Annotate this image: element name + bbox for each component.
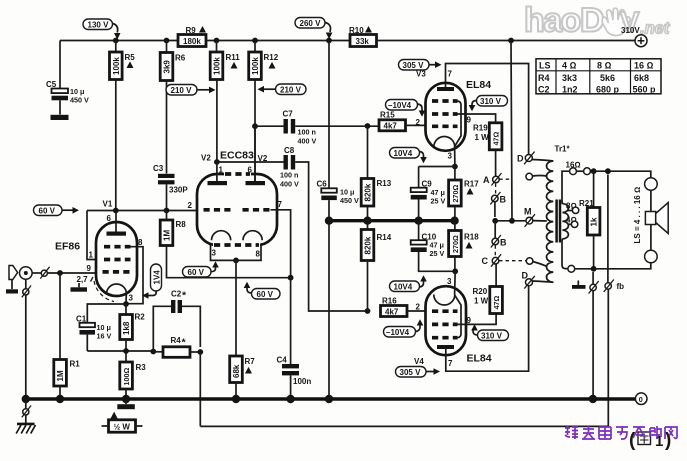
label 305 V V3: [399, 60, 442, 71]
terminal 4ohm tap: [566, 216, 578, 228]
contact B: [490, 192, 506, 217]
node bus R13/R14: [363, 217, 371, 225]
node R21 bottom / ground drop: [591, 266, 597, 272]
svg-text:R19: R19: [473, 124, 488, 133]
wire V3 anode to D chain: [446, 64, 529, 155]
wire secondary top to 16ohm line: [562, 171, 570, 204]
wire fb to feedback line: [607, 289, 609, 426]
svg-text:270Ω: 270Ω: [451, 185, 460, 203]
wire cathode down to R7: [235, 260, 237, 356]
capacitor C2* branch: [153, 290, 200, 352]
svg-text:100k: 100k: [213, 57, 222, 75]
capacitor C8 100n 400V: [217, 146, 368, 311]
svg-text:400 V: 400 V: [280, 180, 299, 189]
wire feedback drop: [199, 352, 201, 426]
svg-text:60 V: 60 V: [188, 268, 205, 277]
wire jack to switch: [32, 272, 41, 274]
wire pin3 V4 stem: [454, 271, 457, 294]
cathode V2b: [243, 231, 262, 241]
node ground secondary: [589, 395, 597, 403]
svg-text:LS: LS: [539, 61, 551, 71]
svg-text:5k6: 5k6: [600, 73, 615, 83]
wire V1 anode line: [87, 210, 197, 212]
svg-text:2: 2: [416, 303, 421, 312]
label 260 V: [295, 18, 332, 40]
svg-text:R5: R5: [125, 53, 136, 62]
svg-text:8: 8: [138, 238, 143, 247]
watermark haoDIY.net: [524, 2, 671, 40]
svg-text:310V: 310V: [621, 26, 640, 35]
svg-text:D: D: [517, 154, 524, 164]
dashed link A-B: [495, 184, 497, 195]
svg-text:210 V: 210 V: [280, 85, 302, 94]
resistor R14 820k: [361, 222, 392, 311]
terminal 16ohm link right: [584, 168, 591, 175]
wire grid-1 drop to EF86 pin 1: [87, 211, 96, 260]
node pin1 / R11 / C8: [214, 159, 220, 165]
wire common line to speaker return: [575, 263, 651, 269]
svg-text:100k: 100k: [112, 57, 121, 75]
svg-text:16 V: 16 V: [97, 332, 112, 341]
anode V1: [115, 211, 117, 232]
svg-text:130 V: 130 V: [88, 20, 110, 29]
svg-text:–10V4: –10V4: [388, 101, 412, 110]
wire 310V rail drop: [511, 41, 512, 221]
resistor R4*: [153, 336, 200, 357]
svg-text:310 V: 310 V: [481, 331, 503, 340]
svg-text:450 V: 450 V: [70, 96, 89, 105]
pin 8 wire to cathode node: [126, 238, 143, 304]
svg-text:210 V: 210 V: [171, 86, 193, 95]
node R21 top: [591, 168, 597, 174]
wire cathode pins 3+8 join: [211, 245, 262, 260]
grid row V2a: [204, 208, 232, 212]
wire pin9 V4 to R20: [458, 314, 497, 325]
svg-text:7: 7: [278, 200, 283, 209]
wire V4 anode to D chain: [446, 286, 529, 371]
node 310V drop: [509, 218, 515, 224]
switch contact jack shield: [22, 279, 31, 399]
svg-text:C2: C2: [171, 290, 182, 299]
anode V2b: [254, 126, 256, 181]
node C3 / R8: [164, 208, 170, 214]
svg-text:3: 3: [447, 277, 452, 286]
svg-text:330P: 330P: [169, 186, 188, 195]
svg-text:2: 2: [416, 118, 421, 127]
svg-text:1 W: 1 W: [474, 297, 489, 306]
svg-text:EL84: EL84: [466, 79, 491, 91]
label -10V4 V3: [386, 100, 426, 117]
svg-text:0: 0: [639, 395, 643, 404]
tube V2 ECC83 envelope: [197, 174, 277, 245]
anode bar V3: [437, 87, 454, 91]
wire fb tap down: [607, 175, 609, 283]
g3 to cathode strap V4: [455, 295, 461, 338]
node ground C4: [286, 395, 294, 403]
node rail 310V feed: [508, 38, 514, 44]
node R2/R3: [123, 348, 129, 354]
envelope dashed bottom segment: [213, 243, 260, 246]
resistor R13 820k: [361, 126, 392, 219]
svg-text:R3: R3: [136, 363, 147, 372]
node rail 260V / C6: [326, 38, 332, 44]
svg-text:1 W: 1 W: [475, 133, 490, 142]
capacitor C7 100n 400V: [255, 110, 379, 146]
capacitor C1 10u 16V: [76, 315, 111, 352]
resistor R6 3k9: [160, 41, 186, 174]
svg-text:R20: R20: [473, 287, 488, 296]
svg-text:60 V: 60 V: [257, 290, 274, 299]
svg-text:4 Ω: 4 Ω: [562, 61, 577, 71]
wire V3 cathode to C9: [419, 166, 455, 168]
svg-text:haoD: haoD: [524, 2, 604, 40]
svg-text:R13: R13: [377, 179, 392, 188]
svg-text:R18: R18: [464, 233, 479, 242]
svg-text:.net: .net: [640, 20, 671, 38]
label 1V4: [142, 264, 162, 299]
node rail R6: [164, 38, 170, 44]
svg-text:4k7: 4k7: [384, 122, 398, 131]
svg-text:Tr1*: Tr1*: [555, 145, 571, 154]
node R4/C2 right: [197, 349, 203, 355]
svg-text:3k9: 3k9: [163, 60, 172, 74]
wire screen node to M: [495, 220, 526, 222]
svg-text:33k: 33k: [356, 37, 370, 46]
svg-text:47Ω: 47Ω: [492, 296, 501, 310]
capacitor C3 330p: [153, 164, 188, 211]
contact M: [524, 207, 547, 227]
terminal speaker bottom: [645, 250, 658, 263]
svg-text:EL84: EL84: [467, 353, 492, 365]
svg-text:V1: V1: [103, 200, 113, 209]
ground bar under C5: [51, 115, 69, 120]
node rail R11: [214, 38, 220, 44]
resistor R8 1M: [160, 211, 290, 278]
switch contact input: [40, 267, 49, 279]
transformer core: [557, 200, 560, 243]
svg-text:R1: R1: [70, 360, 81, 369]
switch contact chassis: [22, 399, 31, 423]
resistor R17 270ohm: [449, 167, 480, 220]
svg-text:C4: C4: [277, 356, 288, 365]
svg-text:100Ω: 100Ω: [122, 368, 131, 386]
terminal 16ohm link left: [570, 168, 577, 175]
svg-text:25 V: 25 V: [431, 197, 446, 206]
svg-text:820k: 820k: [364, 183, 373, 201]
svg-text:C8: C8: [284, 146, 295, 155]
contact A: [483, 173, 512, 186]
terminal +310V: [621, 26, 647, 47]
node R4/C2 left: [150, 349, 156, 355]
terminal speaker top: [645, 178, 658, 191]
watermark purple site name: [565, 426, 677, 439]
ground bar chassis near link: [572, 281, 586, 289]
label 10V4 V3: [390, 148, 427, 164]
contact B2: [491, 235, 507, 248]
svg-text:3: 3: [129, 294, 134, 303]
svg-text:R10: R10: [349, 26, 364, 35]
terminal secondary common: [568, 265, 575, 272]
svg-text:100 n: 100 n: [280, 171, 298, 180]
node rail R5: [113, 38, 119, 44]
svg-text:R2: R2: [135, 313, 146, 322]
resistor R16 4k7: [381, 297, 426, 317]
grid rows V4: [432, 309, 458, 313]
cathode V2a: [212, 231, 231, 241]
svg-text:60 V: 60 V: [39, 206, 56, 215]
label 210 V left: [166, 85, 216, 96]
svg-text:310 V: 310 V: [480, 97, 502, 106]
resistor R15 4k7: [379, 111, 426, 131]
node V1 anode / R5: [113, 208, 119, 214]
resistor R1 1M: [54, 273, 80, 399]
capacitor C9 47u 25V: [411, 167, 446, 220]
svg-text:–10V4: –10V4: [386, 328, 410, 337]
terminal A tap: [526, 173, 547, 180]
wire speaker bottom lead: [650, 225, 652, 251]
node V4 cathode junction: [452, 268, 458, 274]
terminal 0V: [635, 393, 647, 405]
tube V3 EL84 envelope: [426, 83, 466, 151]
label 130 V: [83, 19, 121, 40]
svg-text:R14: R14: [377, 233, 392, 242]
svg-text:305 V: 305 V: [400, 368, 422, 377]
contact fb: [604, 280, 624, 293]
input jack plug: [6, 266, 18, 294]
svg-text:C: C: [482, 256, 489, 266]
svg-text:1: 1: [219, 166, 224, 175]
svg-text:V2: V2: [201, 154, 211, 163]
svg-text:10V4: 10V4: [394, 149, 413, 158]
watermark caption black: [629, 430, 671, 451]
resistor R19 47ohm 1W: [473, 123, 502, 176]
svg-text:820k: 820k: [364, 236, 373, 254]
svg-text:LS = 4 . . . 16 Ω: LS = 4 . . . 16 Ω: [633, 187, 642, 244]
svg-text:6: 6: [248, 166, 253, 175]
resistor R5 100k: [110, 41, 136, 211]
svg-text:450 V: 450 V: [340, 196, 359, 205]
svg-text:A: A: [483, 175, 490, 185]
label 60 V cathode V2: [183, 261, 219, 277]
svg-text:47Ω: 47Ω: [492, 132, 501, 146]
wire 16ohm line to speaker: [590, 171, 650, 177]
svg-text:R4: R4: [538, 73, 550, 83]
wire to EF86 grid: [47, 272, 96, 274]
ground bar below R3: [117, 399, 135, 409]
svg-text:1: 1: [89, 251, 94, 260]
anode V2a: [216, 162, 218, 181]
svg-text:C6: C6: [317, 180, 328, 189]
svg-text:100k: 100k: [251, 57, 260, 75]
tube V4 EL84 envelope: [426, 286, 467, 355]
table LS/R4/C2 values: [536, 59, 661, 95]
grid rows V1: [104, 245, 131, 249]
svg-text:½ W: ½ W: [114, 423, 131, 432]
contact ground link: [589, 281, 599, 294]
grid rows V3: [432, 99, 458, 103]
capacitor C6 10u 450V: [317, 180, 359, 220]
svg-text:2: 2: [188, 201, 193, 210]
capacitor C5 10u 450V: [46, 80, 89, 115]
label 310 V V3: [469, 96, 508, 112]
svg-text:7: 7: [448, 359, 453, 368]
resistor R7 68k: [230, 356, 256, 399]
svg-text:1M: 1M: [163, 230, 172, 241]
capacitor C4 100n: [277, 356, 312, 400]
node ground R3: [122, 395, 130, 403]
g3 to cathode strap V3: [455, 101, 461, 147]
contact C: [482, 254, 527, 267]
wire pin3 V3 to junction: [454, 146, 456, 167]
svg-text:3: 3: [448, 152, 453, 161]
label 60 V grid line: [244, 282, 280, 299]
bus cathode network: [329, 219, 455, 222]
node input junction: [57, 270, 63, 276]
resistor R12 100k: [249, 41, 279, 182]
cathode V3: [434, 137, 455, 148]
node fb tap: [605, 168, 611, 174]
svg-text:2,7: 2,7: [77, 275, 89, 284]
node ground jack: [22, 395, 30, 403]
svg-text:68k: 68k: [232, 364, 241, 378]
resistor R10 33k: [349, 26, 377, 47]
node ground C6: [325, 395, 333, 403]
wire C1/R2 bottom link: [87, 350, 153, 352]
node bus C9/C10: [414, 217, 422, 225]
svg-text:1M: 1M: [56, 370, 65, 381]
resistor R9 180k: [178, 26, 206, 47]
label 305 V V4: [396, 367, 441, 378]
resistor R2 1k8: [120, 304, 145, 351]
svg-text:C2: C2: [538, 84, 550, 94]
wire junction to C1: [87, 304, 126, 323]
svg-text:1n2: 1n2: [562, 84, 578, 94]
svg-text:R11: R11: [226, 53, 241, 62]
envelope dashed top segment: [224, 172, 251, 175]
svg-text:16 Ω: 16 Ω: [634, 61, 654, 71]
node cathode junction V1: [123, 301, 129, 307]
svg-text:ECC83: ECC83: [220, 150, 254, 162]
svg-text:100n: 100n: [293, 377, 311, 386]
ground bus: [26, 397, 635, 400]
svg-text:V3: V3: [416, 70, 426, 79]
transformer primary winding: [546, 161, 553, 282]
wire 260V drop to C6: [328, 41, 330, 189]
label 210 V right: [258, 84, 307, 95]
svg-text:260 V: 260 V: [300, 19, 322, 28]
cathode V1: [107, 284, 127, 294]
svg-text:R8: R8: [176, 220, 187, 229]
label 60 V at V1 anode: [34, 205, 80, 216]
wire HT rail mid segment: [206, 40, 350, 42]
svg-text:100 n: 100 n: [298, 128, 316, 137]
capacitor C10 47u 25V: [411, 222, 456, 271]
grid row V2b: [243, 208, 271, 212]
svg-text:R17: R17: [464, 180, 479, 189]
svg-text:R6: R6: [175, 54, 186, 63]
wire pin9 V3 to R19: [458, 114, 496, 123]
resistor R21 1k: [579, 171, 600, 268]
svg-text:7: 7: [448, 70, 453, 79]
cathode stem to junction: [125, 294, 127, 304]
node bus R17/R18: [450, 217, 458, 225]
node bus C6: [325, 217, 333, 225]
resistor R18 270ohm: [449, 222, 480, 271]
wire secondary bottom line: [562, 239, 568, 269]
dashed link B2-C: [494, 245, 496, 256]
chassis ground hatched: [16, 424, 35, 434]
legend half-watt: [102, 412, 143, 433]
svg-text:R7: R7: [245, 357, 256, 366]
wire screen node down to B2: [494, 221, 496, 239]
svg-text:R12: R12: [264, 53, 279, 62]
svg-text:3: 3: [212, 249, 217, 258]
svg-text:R15: R15: [380, 111, 395, 120]
label 2,7 with ground: [71, 275, 94, 292]
wire HT rail right segment to +310V: [377, 40, 636, 42]
svg-text:8: 8: [256, 250, 261, 259]
svg-text:EF86: EF86: [55, 241, 80, 253]
node grid2 / C4: [288, 275, 294, 281]
node cathode V2: [233, 258, 239, 264]
shield dashed arc: [94, 281, 114, 302]
svg-text:1k8: 1k8: [122, 321, 131, 335]
resistor R11 100k: [210, 41, 240, 163]
svg-text:B: B: [500, 238, 507, 248]
svg-text:10V4: 10V4: [394, 282, 413, 291]
tube V1 EF86 envelope: [96, 222, 137, 296]
node screen bus left: [492, 218, 498, 224]
svg-text:560 p: 560 p: [633, 84, 657, 94]
wire feedback line: [200, 425, 608, 427]
svg-text:9: 9: [87, 264, 92, 273]
resistor R3 100ohm: [120, 351, 146, 399]
svg-text:180k: 180k: [183, 37, 201, 46]
cathode V4: [434, 295, 455, 306]
svg-text:270Ω: 270Ω: [451, 235, 460, 253]
wire C6 to ground: [328, 222, 330, 399]
svg-text:680 p: 680 p: [596, 84, 620, 94]
svg-text:25 V: 25 V: [430, 249, 445, 258]
svg-text:C7: C7: [283, 110, 294, 119]
svg-text:6k8: 6k8: [634, 73, 649, 83]
wire common down to ground bus: [592, 272, 594, 399]
svg-text:6: 6: [107, 214, 112, 223]
svg-text:fb: fb: [617, 282, 625, 291]
svg-text:V4: V4: [414, 357, 424, 366]
terminal 8ohm tap: [566, 202, 579, 214]
node ground R7: [232, 395, 240, 403]
node C8 / R16 / R14: [365, 308, 371, 314]
svg-text:M: M: [524, 207, 532, 217]
terminal C tap: [526, 258, 547, 267]
wire node to C4: [290, 278, 292, 364]
contact D bottom: [522, 271, 554, 289]
wire HT rail left segment: [60, 40, 178, 42]
wire link mid: [576, 170, 583, 172]
node V3 cathode junction: [452, 164, 458, 170]
svg-text:1V4: 1V4: [153, 270, 162, 285]
node pin6-line / C7: [252, 123, 258, 129]
transformer secondary winding: [562, 204, 568, 239]
speaker LS: [645, 203, 668, 234]
node C7 / R13: [365, 123, 371, 129]
node rail R12: [252, 38, 258, 44]
svg-text:1k: 1k: [590, 217, 599, 226]
wire rail corner down to C5: [59, 41, 61, 89]
svg-text:4k7: 4k7: [385, 307, 399, 316]
svg-text:9: 9: [467, 116, 472, 125]
